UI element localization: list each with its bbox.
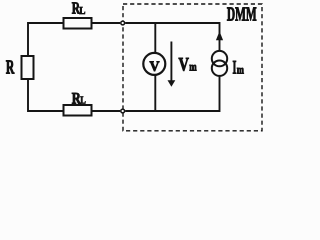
svg-text:V: V — [150, 58, 160, 75]
svg-text:L: L — [79, 6, 85, 17]
svg-text:L: L — [80, 96, 86, 107]
svg-text:DMM: DMM — [227, 4, 257, 26]
svg-text:V: V — [179, 56, 190, 76]
svg-text:m: m — [189, 60, 196, 74]
svg-text:R: R — [6, 57, 15, 78]
svg-text:m: m — [237, 63, 244, 77]
